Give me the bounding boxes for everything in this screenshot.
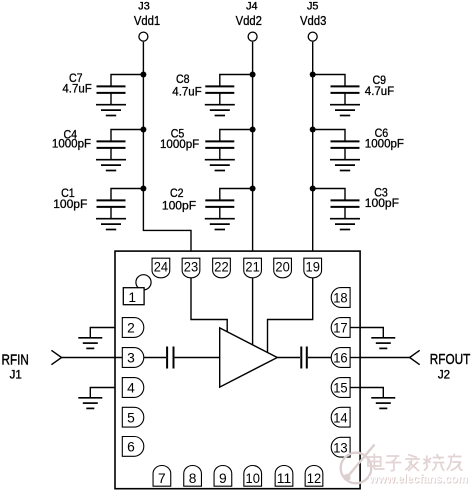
ground (below C3) <box>330 207 360 230</box>
ground (pin 2) <box>78 338 102 349</box>
svg-text:1000pF: 1000pF <box>52 137 91 151</box>
wire pin 3 to input coupling capacitor <box>144 357 166 359</box>
pin 17 (right) <box>331 318 350 338</box>
pin 11 (bottom) <box>275 466 293 487</box>
svg-text:J2: J2 <box>438 369 450 381</box>
pin 13 (right) <box>331 437 350 457</box>
pin 8 (bottom) <box>184 466 202 487</box>
svg-text:12: 12 <box>307 471 321 486</box>
svg-text:1000pF: 1000pF <box>365 137 404 151</box>
svg-text:4.7uF: 4.7uF <box>365 84 394 98</box>
capacitor C5 (1000pF) <box>160 127 253 151</box>
wire pin 16 to RFOUT <box>360 357 410 359</box>
amplifier (gain block triangle) <box>220 328 278 387</box>
node junction on Vdd line for C4 <box>140 127 146 133</box>
pin 23 (top) <box>182 258 200 278</box>
ground (below C2) <box>205 207 235 230</box>
pin 5 (left) <box>122 407 144 427</box>
svg-text:14: 14 <box>333 410 348 425</box>
pin 1 (left, square) <box>123 288 144 306</box>
capacitor (output DC block) <box>301 347 307 369</box>
ground (below C4) <box>96 148 126 171</box>
pin 7 (bottom) <box>153 466 171 487</box>
pin 1 indicator circle <box>136 275 151 290</box>
wire pin 15 stub to package edge <box>350 387 360 389</box>
pin 18 (right) <box>331 288 350 308</box>
svg-text:4: 4 <box>127 381 135 396</box>
svg-text:J3: J3 <box>138 1 149 13</box>
svg-text:22: 22 <box>214 260 228 275</box>
ground (below C6) <box>330 148 360 171</box>
ground (pin 15) <box>371 398 395 409</box>
ground (pin 17) <box>371 338 395 349</box>
svg-text:4.7uF: 4.7uF <box>62 82 91 96</box>
svg-text:5: 5 <box>127 410 135 425</box>
svg-text:23: 23 <box>184 260 199 275</box>
capacitor C8 (4.7uF) <box>172 72 252 99</box>
wire pin 16 stub to package edge <box>350 357 360 359</box>
svg-text:13: 13 <box>333 440 348 455</box>
svg-text:J4: J4 <box>246 1 257 13</box>
ground (below C9) <box>330 93 360 116</box>
pin 6 (left) <box>122 437 144 457</box>
svg-text:21: 21 <box>245 260 259 275</box>
svg-text:19: 19 <box>306 260 321 275</box>
wire pin 17 to ground <box>360 328 383 338</box>
svg-text:20: 20 <box>275 260 290 275</box>
pin 24 (top) <box>152 258 170 278</box>
connector J1 RFIN <box>2 350 62 381</box>
svg-text:2: 2 <box>127 321 135 336</box>
svg-text:100pF: 100pF <box>53 197 87 211</box>
pin 20 (top) <box>274 258 292 278</box>
capacitor C7 (4.7uF) <box>62 71 143 96</box>
svg-text:8: 8 <box>189 471 197 486</box>
connector J3 (Vdd1 supply terminal) <box>134 1 160 42</box>
node junction on Vdd line for C3 <box>310 186 316 192</box>
svg-text:100pF: 100pF <box>162 198 196 212</box>
wire output capacitor to pin 16 <box>308 357 331 359</box>
pin 21 (top) <box>244 258 262 278</box>
IC U1 package outline (24-pin QFN) <box>115 251 360 489</box>
ground (below C8) <box>205 93 235 116</box>
svg-text:16: 16 <box>333 351 348 366</box>
capacitor C2 (100pF) <box>162 186 253 212</box>
connector J4 (Vdd2 supply terminal) <box>236 1 262 42</box>
pin 22 (top) <box>213 258 231 278</box>
pin 19 (top) <box>304 258 322 278</box>
wire pin 19 to amplifier top edge <box>268 278 313 353</box>
wire Vdd3 net: terminal J5 down into pin 19 <box>312 42 314 251</box>
node junction on Vdd line for C8 <box>250 72 256 78</box>
svg-text:J1: J1 <box>10 369 22 381</box>
wire pin 4 to ground <box>90 388 115 398</box>
pin 3 (left) <box>122 348 143 368</box>
svg-text:10: 10 <box>246 471 261 486</box>
node junction on Vdd line for C5 <box>250 127 256 133</box>
svg-text:24: 24 <box>154 260 169 275</box>
ground (below C1) <box>96 207 126 230</box>
svg-text:Vdd2: Vdd2 <box>236 13 262 28</box>
wire input capacitor to amplifier input <box>175 357 220 359</box>
svg-text:3: 3 <box>127 351 135 366</box>
svg-text:100pF: 100pF <box>365 196 399 210</box>
svg-text:1: 1 <box>128 290 136 305</box>
connector J5 (Vdd3 supply terminal) <box>300 1 326 42</box>
connector J2 RFOUT <box>410 350 471 381</box>
wire pin 17 stub to package edge <box>350 327 360 329</box>
svg-text:RFOUT: RFOUT <box>430 352 471 368</box>
wire Vdd1 net: terminal J3 down, jog right into pin 23 <box>143 42 191 251</box>
watermark logo (decorative, faint) <box>341 445 375 484</box>
capacitor C4 (1000pF) <box>52 127 143 150</box>
svg-text:18: 18 <box>333 291 348 306</box>
wire pin 2 to ground <box>90 328 115 338</box>
node junction on Vdd line for C1 <box>140 186 146 192</box>
pin 9 (bottom) <box>214 466 232 487</box>
svg-text:RFIN: RFIN <box>2 352 29 368</box>
node junction on Vdd line for C7 <box>140 72 146 78</box>
capacitor C9 (4.7uF) <box>313 73 394 98</box>
svg-text:7: 7 <box>158 471 166 486</box>
wire pin 21 to amplifier top edge <box>252 278 254 345</box>
svg-text:1000pF: 1000pF <box>160 137 199 151</box>
svg-text:Vdd1: Vdd1 <box>134 13 160 28</box>
svg-text:15: 15 <box>333 381 348 396</box>
capacitor C3 (100pF) <box>313 185 399 209</box>
svg-text:17: 17 <box>333 321 347 336</box>
svg-text:11: 11 <box>277 471 291 486</box>
svg-text:6: 6 <box>127 439 135 454</box>
capacitor C6 (1000pF) <box>313 126 404 150</box>
pin 15 (right) <box>331 378 350 398</box>
pin 10 (bottom) <box>244 466 262 487</box>
pin 12 (bottom) <box>305 466 323 487</box>
capacitor C1 (100pF) <box>53 186 143 211</box>
pin 14 (right) <box>331 407 350 427</box>
svg-text:4.7uF: 4.7uF <box>172 85 201 99</box>
svg-text:J5: J5 <box>307 1 318 13</box>
wire pin 15 to ground <box>360 388 383 398</box>
capacitor (input DC block) <box>167 347 173 369</box>
ground (below C7) <box>96 93 126 116</box>
wire pin 23 to amplifier top edge <box>191 278 227 332</box>
node junction on Vdd line for C2 <box>250 186 256 192</box>
svg-text:www.elecfans.com: www.elecfans.com <box>368 472 467 486</box>
wire RFIN to pin 3 <box>62 357 123 359</box>
ground (below C5) <box>205 148 235 171</box>
wire amplifier output to output coupling capacitor <box>277 357 300 359</box>
pin 2 (left) <box>122 318 144 338</box>
node junction on Vdd line for C6 <box>310 127 316 133</box>
wire Vdd2 net: terminal J4 down into pin 21 <box>252 42 254 251</box>
pin 16 (right) <box>331 348 350 368</box>
ground (pin 4) <box>78 398 102 409</box>
node junction on Vdd line for C9 <box>310 72 316 78</box>
svg-text:9: 9 <box>219 471 227 486</box>
svg-text:Vdd3: Vdd3 <box>300 13 326 28</box>
pin 4 (left) <box>122 378 143 398</box>
watermark chinese characters (decorative, faint) <box>368 454 463 472</box>
